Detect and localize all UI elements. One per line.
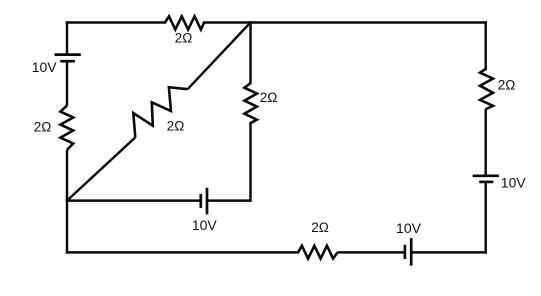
wire B4 to bottom-right corner [411, 251, 486, 253]
wire B2 to middle branch [207, 199, 251, 201]
resistor R5 (right, 2Ω) [480, 69, 493, 109]
svg-text:2Ω: 2Ω [498, 77, 516, 92]
battery B4 (bottom, 10V) [405, 238, 411, 266]
wire node A to bottom-left corner [66, 201, 68, 253]
battery B3 (right, 10V) [473, 176, 499, 182]
resistor R1 (top, 2Ω) [165, 16, 204, 29]
wire B1 to R2 [66, 61, 68, 105]
wire R3 to node B [188, 23, 251, 90]
wire node A to B2 [67, 199, 201, 201]
svg-text:10V: 10V [501, 175, 527, 191]
resistor R2 (left, 2Ω) [60, 106, 73, 150]
wire left edge top [66, 23, 68, 54]
battery B1 (left, 10V) [55, 55, 81, 62]
svg-text:2Ω: 2Ω [167, 118, 185, 133]
resistor R6 (bottom, 2Ω) [298, 246, 337, 259]
resistor R4 (middle, 2Ω) [244, 83, 257, 123]
wire R4 to middle wire [249, 123, 251, 200]
wire B3 to R5 [484, 109, 486, 176]
svg-text:2Ω: 2Ω [34, 120, 52, 135]
wire bottom-left to R6 [67, 251, 298, 253]
wire node B down to R4 [249, 23, 251, 84]
resistor R3 (diagonal, 2Ω) [133, 87, 187, 137]
diagonal wire node A to R3 [67, 137, 135, 200]
wire R6 to B4 [338, 251, 405, 253]
wire top-right corner to R5 [484, 23, 486, 70]
svg-text:2Ω: 2Ω [260, 90, 278, 105]
wire node B to top-right corner [251, 21, 486, 23]
svg-text:10V: 10V [396, 220, 422, 236]
svg-text:2Ω: 2Ω [175, 31, 193, 46]
wire right edge bottom [484, 182, 486, 253]
svg-text:10V: 10V [192, 217, 218, 233]
wire R2 to node A [66, 150, 68, 201]
svg-text:2Ω: 2Ω [311, 220, 329, 235]
wire R1 to node B [204, 21, 250, 23]
battery B2 (middle, 10V) [201, 188, 207, 215]
svg-text:10V: 10V [32, 59, 58, 75]
wire top-left to R1 [67, 21, 165, 23]
